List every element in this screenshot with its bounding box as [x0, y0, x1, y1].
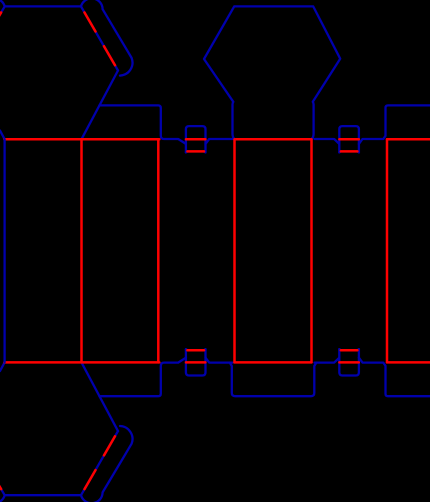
- panel fold crease V1: [80, 139, 83, 362]
- panel fold crease V3: [233, 139, 236, 362]
- tuck lid hexagon H2 on panel P3 (cut outline): [204, 6, 340, 139]
- left net edge cut: [3, 139, 5, 362]
- bottom dust flap D3 under panel P3 (cut outline with end ticks): [230, 363, 316, 397]
- panel fold crease V5: [386, 139, 389, 362]
- panel fold crease V2: [157, 139, 160, 362]
- panel fold crease V4: [310, 139, 313, 362]
- bottom half mirrored group: [0, 349, 430, 502]
- top half group: [0, 0, 430, 152]
